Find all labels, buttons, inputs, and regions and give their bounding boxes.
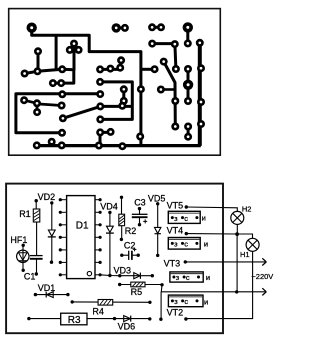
PCB board outline xyxy=(9,9,221,156)
svg-text:VT3: VT3 xyxy=(164,258,181,268)
diode VD1 xyxy=(34,293,37,296)
wire C-shape net xyxy=(100,82,132,120)
wire VT3 to mains upper xyxy=(185,261,266,263)
diode VD6 xyxy=(113,317,116,320)
svg-text:с: с xyxy=(184,214,188,223)
resistor R2 xyxy=(120,196,123,199)
wire clover stem xyxy=(73,47,76,71)
wire mid column verticals xyxy=(187,69,190,137)
lamp H2 xyxy=(231,211,244,224)
svg-text:з: з xyxy=(174,240,178,249)
wire diagonal from pad to vertical xyxy=(164,62,176,127)
svg-text:з: з xyxy=(176,273,180,282)
transistor VT2 xyxy=(168,295,203,307)
resistor R4 xyxy=(71,300,74,303)
wire right thick vertical xyxy=(198,43,202,146)
wire pad pair join 3 xyxy=(186,27,189,43)
diode VD2 xyxy=(50,201,53,204)
wire VT4 junction to lamp H1 xyxy=(186,234,252,239)
wire top-right horizontal + vertical to pad xyxy=(152,44,176,69)
wire main trace from pad A down-right to bottom xyxy=(32,28,141,146)
wire mains lower xyxy=(161,285,266,292)
wire clover joins xyxy=(70,44,79,50)
diode VD3 xyxy=(118,274,121,277)
D1 pins xyxy=(59,198,102,276)
wire junction down to lower mains xyxy=(236,234,238,292)
wire branch to right pad xyxy=(141,68,155,71)
svg-text:VD6: VD6 xyxy=(118,321,136,331)
svg-text:з: з xyxy=(174,214,178,223)
svg-text:с: с xyxy=(184,240,188,249)
svg-text:H2: H2 xyxy=(242,204,252,213)
svg-text:VT5: VT5 xyxy=(167,201,184,211)
capacitor C3 xyxy=(138,207,141,210)
svg-text:R2: R2 xyxy=(125,226,137,236)
svg-text:R5: R5 xyxy=(131,287,143,297)
wire 3-pad row + top pad xyxy=(100,60,121,69)
svg-text:с: с xyxy=(186,273,190,282)
wire vertical from pad (38,51) xyxy=(37,51,40,71)
svg-text:и: и xyxy=(206,273,210,282)
svg-text:VT2: VT2 xyxy=(167,307,184,317)
svg-text:VD1: VD1 xyxy=(38,283,56,293)
arrow lower xyxy=(262,288,266,295)
wire vertical branch x56 xyxy=(55,35,58,70)
wire stub from left pad xyxy=(161,88,175,91)
wire small chain left xyxy=(24,100,62,112)
wire D1 to VD3 xyxy=(100,274,120,277)
svg-text:VD4: VD4 xyxy=(100,201,118,211)
diode VD4 xyxy=(108,211,111,214)
wire pad pair + stem to bottom line xyxy=(100,132,111,145)
placement board outline xyxy=(6,184,223,334)
arrow upper xyxy=(262,258,266,265)
svg-text:R3: R3 xyxy=(68,315,81,326)
lamp H1 xyxy=(246,238,259,251)
wire pad pair join 1 xyxy=(116,26,125,29)
svg-text:~220V: ~220V xyxy=(251,272,273,281)
resistor R5 xyxy=(118,283,121,286)
wire diagonal lower middle xyxy=(63,106,100,118)
capacitor C1 xyxy=(30,255,43,257)
svg-text:VD2: VD2 xyxy=(38,192,56,202)
svg-text:з: з xyxy=(174,297,178,306)
svg-text:H1: H1 xyxy=(240,250,250,259)
IC D1 xyxy=(67,196,95,279)
svg-text:VD3: VD3 xyxy=(114,265,132,275)
svg-text:C2: C2 xyxy=(124,241,136,251)
sound emitter HF1 xyxy=(22,244,25,247)
wire long bottom horizontal xyxy=(37,144,201,147)
resistor R3 xyxy=(27,317,30,320)
svg-text:C3: C3 xyxy=(134,198,146,208)
wire pad stub on bottom line xyxy=(50,142,53,146)
svg-text:и: и xyxy=(204,298,208,307)
svg-text:D1: D1 xyxy=(76,221,89,232)
svg-text:и: и xyxy=(202,214,206,223)
svg-text:VD5: VD5 xyxy=(148,193,166,203)
svg-text:R1: R1 xyxy=(19,209,31,219)
wire horizontal net y70 with corner down to pad pair xyxy=(25,69,74,83)
svg-text:HF1: HF1 xyxy=(10,235,27,245)
wire pad pair join 2 xyxy=(152,26,161,29)
wire vertical pad pair mid xyxy=(122,89,125,101)
svg-text:с: с xyxy=(184,297,188,306)
svg-text:и: и xyxy=(204,239,208,248)
svg-text:C1: C1 xyxy=(24,271,36,281)
wire VT5 to lamp H2 xyxy=(186,207,237,211)
pads with drill holes xyxy=(20,22,205,150)
wire H1 down to VT2 return xyxy=(186,251,253,318)
wire big left loop xyxy=(16,94,100,133)
wire H2 to junction xyxy=(236,224,238,234)
capacitor C2 xyxy=(120,254,123,257)
svg-text:R4: R4 xyxy=(92,307,104,317)
svg-text:VT4: VT4 xyxy=(167,226,184,236)
resistor R1 xyxy=(35,199,38,202)
diode VD5 xyxy=(156,202,159,205)
